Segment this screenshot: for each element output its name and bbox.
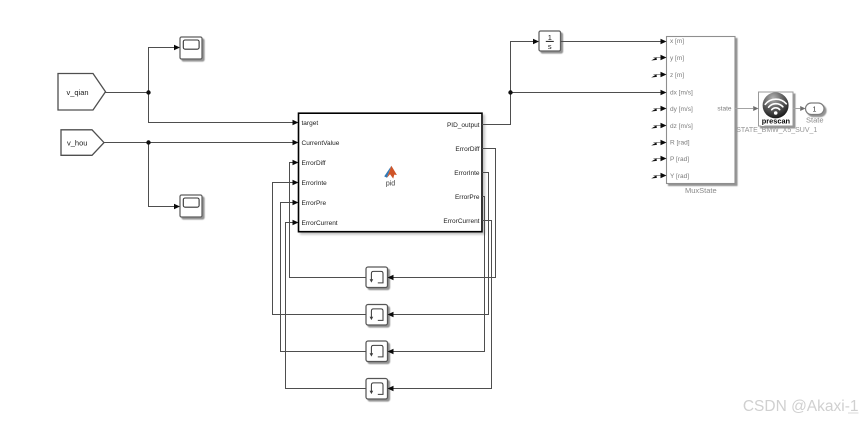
svg-text:v_hou: v_hou (67, 138, 87, 147)
svg-text:v_qian: v_qian (67, 88, 89, 97)
svg-text:ErrorInte: ErrorInte (302, 180, 328, 187)
svg-text:STATE_BMW_X5_SUV_1: STATE_BMW_X5_SUV_1 (736, 127, 817, 134)
svg-text:CSDN @Akaxi-1: CSDN @Akaxi-1 (743, 398, 859, 415)
svg-text:ErrorDiff: ErrorDiff (455, 146, 479, 153)
svg-text:CurrentValue: CurrentValue (302, 140, 340, 147)
svg-text:s: s (548, 42, 552, 51)
svg-text:ErrorDiff: ErrorDiff (302, 160, 326, 167)
svg-text:y [m]: y [m] (670, 55, 684, 62)
svg-text:target: target (302, 120, 319, 127)
svg-text:ErrorInte: ErrorInte (454, 170, 480, 177)
svg-text:z [m]: z [m] (670, 72, 684, 79)
svg-text:R [rad]: R [rad] (670, 140, 690, 147)
svg-text:x [m]: x [m] (670, 38, 684, 45)
svg-text:pid: pid (386, 181, 395, 188)
svg-text:state: state (717, 106, 731, 113)
svg-text:dx [m/s]: dx [m/s] (670, 90, 693, 97)
svg-text:PID_output: PID_output (447, 122, 480, 129)
svg-text:P [rad]: P [rad] (670, 156, 689, 163)
svg-text:ErrorCurrent: ErrorCurrent (302, 220, 338, 227)
svg-text:Y [rad]: Y [rad] (670, 173, 689, 180)
svg-text:ErrorPre: ErrorPre (455, 194, 480, 201)
svg-text:1: 1 (813, 107, 817, 114)
svg-text:MuxState: MuxState (685, 186, 717, 195)
svg-text:State: State (806, 115, 824, 124)
svg-text:ErrorCurrent: ErrorCurrent (443, 218, 479, 225)
svg-text:1: 1 (548, 33, 552, 42)
svg-text:dz [m/s]: dz [m/s] (670, 123, 693, 130)
svg-text:dy [m/s]: dy [m/s] (670, 106, 693, 113)
svg-text:ErrorPre: ErrorPre (302, 200, 327, 207)
svg-text:prescan: prescan (762, 117, 791, 126)
